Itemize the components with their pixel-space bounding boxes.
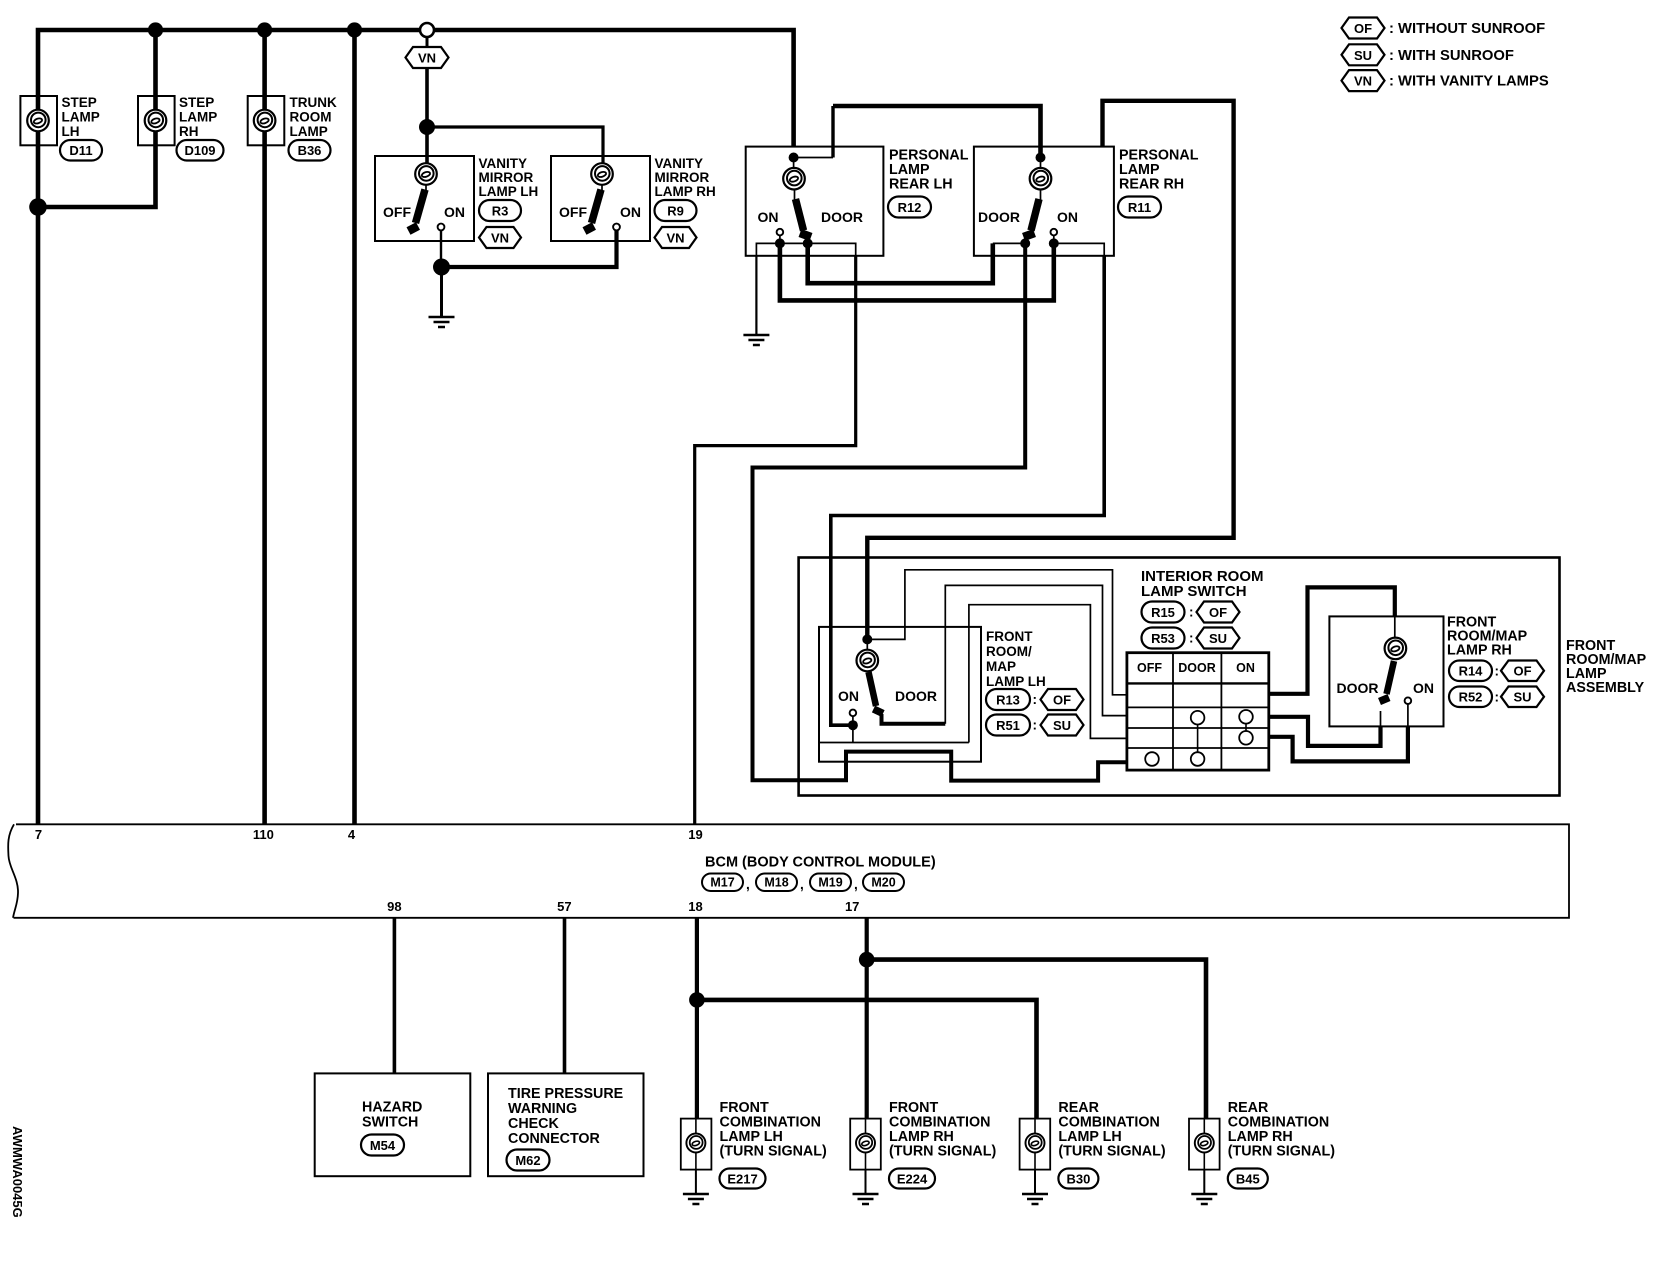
front room/map lamp assembly box xyxy=(799,558,1560,796)
svg-text:OF: OF xyxy=(1053,693,1071,708)
svg-text:R3: R3 xyxy=(492,204,509,219)
trunk room lamp B36 xyxy=(248,95,337,161)
wire: personal LH ground xyxy=(755,256,757,335)
svg-text:19: 19 xyxy=(688,827,702,842)
wire: RH ON to map lamp LH ON xyxy=(831,256,1104,725)
svg-text:ON: ON xyxy=(1057,209,1078,225)
svg-text:ON: ON xyxy=(1413,680,1434,696)
svg-text:STEP: STEP xyxy=(179,95,214,110)
svg-text:E217: E217 xyxy=(727,1172,757,1187)
label: front room/map lamp assembly xyxy=(1566,638,1647,696)
svg-text:MIRROR: MIRROR xyxy=(479,170,534,185)
svg-text:R15: R15 xyxy=(1151,605,1175,620)
wire: personal ON-ON link xyxy=(780,243,1054,300)
svg-text:OFF: OFF xyxy=(383,204,411,220)
svg-text:B30: B30 xyxy=(1066,1172,1090,1187)
svg-text:TRUNK: TRUNK xyxy=(290,95,337,110)
svg-text:REAR RH: REAR RH xyxy=(1119,177,1184,193)
svg-text:17: 17 xyxy=(845,899,859,914)
svg-text:R52: R52 xyxy=(1459,690,1483,705)
wire: vanity LH ON terminal down xyxy=(440,231,442,268)
svg-text:VN: VN xyxy=(491,231,509,246)
svg-text:LAMP: LAMP xyxy=(179,110,217,125)
svg-text:ON: ON xyxy=(838,688,859,704)
svg-text::: : xyxy=(1033,718,1038,733)
svg-text::: : xyxy=(1189,631,1194,646)
wire: personal LH feed jog to RH xyxy=(794,157,833,159)
svg-text:OFF: OFF xyxy=(1137,661,1162,675)
svg-text:: WITHOUT SUNROOF: : WITHOUT SUNROOF xyxy=(1389,21,1545,37)
svg-text:WARNING: WARNING xyxy=(508,1101,577,1117)
svg-text:(TURN SIGNAL): (TURN SIGNAL) xyxy=(1058,1144,1165,1160)
svg-text:SU: SU xyxy=(1209,631,1227,646)
node: bus junction step lamp RH xyxy=(148,22,163,37)
rear combination lamp RH B45 xyxy=(1189,1100,1335,1204)
wire: battery bus top xyxy=(38,30,794,824)
hazard switch M54 xyxy=(315,1073,471,1176)
svg-text:DOOR: DOOR xyxy=(1178,661,1216,675)
svg-text:(TURN SIGNAL): (TURN SIGNAL) xyxy=(720,1144,827,1160)
legend SU with sunroof xyxy=(1342,44,1514,65)
legend OF without sunroof xyxy=(1342,18,1546,39)
svg-text:DOOR: DOOR xyxy=(895,688,937,704)
svg-text:VN: VN xyxy=(666,231,684,246)
svg-text:4: 4 xyxy=(348,827,356,842)
wire: BCM pin 98 to hazard switch xyxy=(393,918,397,1074)
svg-text:B36: B36 xyxy=(298,143,322,158)
connector VN symbol below bus xyxy=(426,37,429,48)
BCM body control module box M17,M18,M19,M20 xyxy=(8,824,1569,918)
wire: vanity RH feed xyxy=(427,127,603,164)
svg-text:DOOR: DOOR xyxy=(1337,680,1379,696)
rear combination lamp LH B30 xyxy=(1020,1100,1166,1204)
svg-text:D11: D11 xyxy=(69,143,92,158)
svg-text:M54: M54 xyxy=(370,1138,396,1153)
svg-text:B45: B45 xyxy=(1236,1172,1260,1187)
svg-text:OF: OF xyxy=(1513,664,1531,679)
svg-text:LAMP: LAMP xyxy=(290,124,328,139)
svg-text:R12: R12 xyxy=(898,200,922,215)
svg-text:LAMP RH: LAMP RH xyxy=(1447,643,1512,659)
personal lamp rear LH R12 xyxy=(746,147,969,256)
svg-text:LH: LH xyxy=(62,124,80,139)
svg-text:R13: R13 xyxy=(996,693,1020,708)
svg-text:98: 98 xyxy=(387,899,401,914)
front combination lamp RH E224 xyxy=(850,1100,996,1204)
wire: vanity ground drop xyxy=(440,267,443,317)
svg-text:VANITY: VANITY xyxy=(655,156,704,171)
svg-text:REAR LH: REAR LH xyxy=(889,177,953,193)
svg-text:ASSEMBLY: ASSEMBLY xyxy=(1566,680,1645,696)
svg-text:M17: M17 xyxy=(710,876,734,890)
node: bus junction trunk room lamp xyxy=(257,22,272,37)
node: bus junction BCM pin 4 xyxy=(347,22,362,37)
wire: vanity feed xyxy=(425,68,429,164)
svg-text:57: 57 xyxy=(557,899,571,914)
wire: map LH bulb to switch row1 xyxy=(871,570,1127,695)
vanity mirror lamp LH R3 xyxy=(375,156,538,248)
svg-text:ON: ON xyxy=(444,204,465,220)
wire: pin 19 run to BCM xyxy=(695,256,856,825)
svg-text:ROOM: ROOM xyxy=(290,110,332,125)
svg-text::: : xyxy=(1495,664,1500,679)
svg-text:MAP: MAP xyxy=(986,659,1016,674)
node: VN tap open circle xyxy=(420,23,434,37)
ground: personal lamp xyxy=(743,335,769,345)
svg-text:STEP: STEP xyxy=(62,95,97,110)
svg-text:AWMWA0045G: AWMWA0045G xyxy=(10,1126,25,1218)
svg-text:DOOR: DOOR xyxy=(978,209,1020,225)
svg-text:LAMP LH: LAMP LH xyxy=(479,184,539,199)
legend VN with vanity lamps xyxy=(1342,70,1549,91)
svg-text:DOOR: DOOR xyxy=(821,209,863,225)
svg-text:ROOM/: ROOM/ xyxy=(986,644,1032,659)
wire: drop to BCM pin 4 xyxy=(352,30,357,824)
svg-text:OF: OF xyxy=(1354,21,1372,36)
svg-text:110: 110 xyxy=(253,827,274,842)
svg-text:(TURN SIGNAL): (TURN SIGNAL) xyxy=(1228,1144,1335,1160)
svg-text:LAMP RH: LAMP RH xyxy=(655,184,716,199)
svg-text:VN: VN xyxy=(1354,74,1372,89)
wire: switch row3 to map RH ON xyxy=(1269,726,1408,761)
svg-text:ON: ON xyxy=(620,204,641,220)
svg-text:(TURN SIGNAL): (TURN SIGNAL) xyxy=(889,1144,996,1160)
svg-text:M20: M20 xyxy=(871,876,895,890)
wire: RH door switch run into assembly xyxy=(753,243,1127,780)
svg-text:M18: M18 xyxy=(764,876,788,890)
svg-text:E224: E224 xyxy=(897,1172,928,1187)
svg-text:VN: VN xyxy=(418,51,436,66)
node: pin17 branch junction xyxy=(859,952,875,968)
svg-text:SU: SU xyxy=(1513,690,1531,705)
wire: trunk room lamp drop to BCM pin 110 xyxy=(262,30,267,824)
svg-text:SU: SU xyxy=(1053,718,1071,733)
svg-text:7: 7 xyxy=(35,827,42,842)
wire: map LH door foot to switch row2 xyxy=(882,714,946,724)
svg-text:FRONT: FRONT xyxy=(986,629,1033,644)
svg-text:M62: M62 xyxy=(515,1153,540,1168)
svg-text:: WITH SUNROOF: : WITH SUNROOF xyxy=(1389,48,1514,64)
front combination lamp LH E217 xyxy=(681,1100,827,1204)
wire: switch row2 to map RH door xyxy=(1269,717,1381,746)
svg-text:R51: R51 xyxy=(996,718,1020,733)
front room/map lamp LH R13/R51 xyxy=(819,627,1084,762)
svg-text:HAZARD: HAZARD xyxy=(362,1100,422,1116)
vanity mirror lamp RH R9 xyxy=(551,156,716,248)
svg-text:LAMP LH: LAMP LH xyxy=(986,674,1046,689)
tire pressure warning check connector M62 xyxy=(488,1073,644,1176)
svg-text:: WITH VANITY LAMPS: : WITH VANITY LAMPS xyxy=(1389,74,1549,90)
svg-text::: : xyxy=(1495,690,1500,705)
svg-text:18: 18 xyxy=(688,899,702,914)
svg-text:ON: ON xyxy=(1236,661,1255,675)
svg-text:BCM (BODY CONTROL MODULE): BCM (BODY CONTROL MODULE) xyxy=(705,855,936,871)
svg-text:CONNECTOR: CONNECTOR xyxy=(508,1131,601,1147)
svg-text:M19: M19 xyxy=(818,876,842,890)
svg-text:D109: D109 xyxy=(184,143,215,158)
wire: vanity ON link LH-RH xyxy=(442,231,617,268)
wire: branch to rear combination LH xyxy=(697,1000,1037,1119)
front room/map lamp RH R14/R52 xyxy=(1329,615,1544,727)
wire: BCM pin 57 to tire pressure connector xyxy=(563,918,567,1074)
node: junction step lamps xyxy=(29,198,47,216)
svg-text:ON: ON xyxy=(758,209,779,225)
svg-text:R53: R53 xyxy=(1151,631,1175,646)
svg-text:VANITY: VANITY xyxy=(479,156,528,171)
personal lamp rear RH R11 xyxy=(974,147,1199,256)
svg-text::: : xyxy=(1033,692,1038,707)
svg-text:R14: R14 xyxy=(1459,664,1484,679)
wire: BCM pin 18 turn signal LH xyxy=(695,918,699,1119)
svg-text:CHECK: CHECK xyxy=(508,1116,560,1132)
wire: loop feed over legend xyxy=(867,101,1233,640)
wire: BCM pin 17 turn signal RH xyxy=(865,918,869,1119)
node: vanity ground junction xyxy=(433,259,450,276)
wire: map LH ON node to switch row3 xyxy=(969,605,1127,743)
node: pin18 branch junction xyxy=(689,992,705,1008)
svg-text:SWITCH: SWITCH xyxy=(362,1115,418,1131)
svg-text:R11: R11 xyxy=(1128,200,1151,215)
wire: step lamp RH drop xyxy=(40,30,156,207)
ground: vanity lamps xyxy=(429,317,455,327)
svg-text:R9: R9 xyxy=(667,204,684,219)
wire: personal DOOR-DOOR link xyxy=(808,243,993,283)
wire: switch row1 to map RH bulb xyxy=(1269,587,1395,693)
svg-text:MIRROR: MIRROR xyxy=(655,170,710,185)
node: vanity feed junction xyxy=(419,119,435,135)
svg-text:LAMP SWITCH: LAMP SWITCH xyxy=(1141,583,1247,600)
svg-text::: : xyxy=(1189,605,1194,620)
step lamp LH D11 xyxy=(20,95,102,161)
interior room lamp switch R15/R53 xyxy=(1127,568,1269,770)
step lamp RH D109 xyxy=(138,95,224,161)
svg-text:TIRE PRESSURE: TIRE PRESSURE xyxy=(508,1086,623,1102)
svg-text:RH: RH xyxy=(179,124,199,139)
svg-text:,: , xyxy=(746,877,750,892)
svg-text:SU: SU xyxy=(1354,48,1372,63)
svg-text:,: , xyxy=(854,877,858,892)
svg-text:OFF: OFF xyxy=(559,204,587,220)
svg-text:LAMP: LAMP xyxy=(62,110,100,125)
wire: branch to rear combination RH xyxy=(867,960,1206,1119)
svg-text:OF: OF xyxy=(1209,605,1227,620)
svg-text:,: , xyxy=(800,877,804,892)
